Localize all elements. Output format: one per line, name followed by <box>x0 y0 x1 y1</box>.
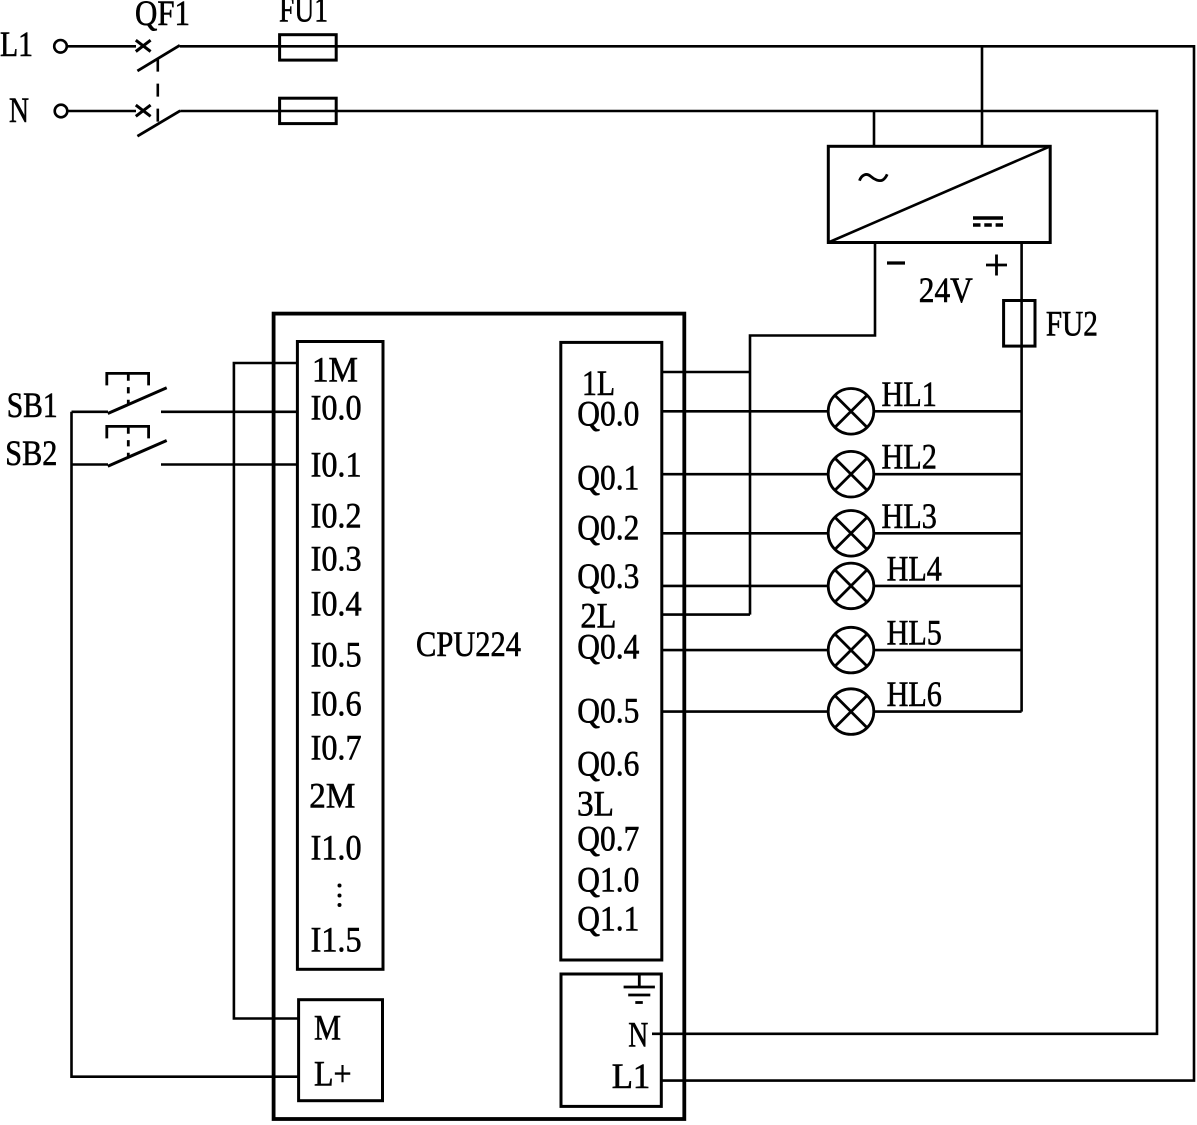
lamp HL3 <box>828 511 874 557</box>
breaker QF1 pole 2 blade <box>137 111 180 137</box>
wire Q0.3 to HL4 <box>662 585 828 588</box>
wire SB2 to I0.1 <box>161 463 297 466</box>
PLC CPU224 box <box>274 314 685 1119</box>
wire L1 drop to power supply input <box>981 46 984 146</box>
svg-text:SB1: SB1 <box>7 385 58 425</box>
pushbutton SB2 actuator stem (dashed) <box>127 427 130 456</box>
svg-text:Q0.3: Q0.3 <box>577 556 639 596</box>
wire SB1 to I0.0 <box>161 410 297 413</box>
svg-text:I1.0: I1.0 <box>311 828 362 868</box>
svg-text:2M: 2M <box>309 776 355 816</box>
wire N drop to power supply input <box>873 111 876 146</box>
svg-text:Q0.2: Q0.2 <box>577 508 639 548</box>
pushbutton SB1 actuator cap <box>107 373 149 385</box>
svg-text:HL6: HL6 <box>887 674 942 714</box>
svg-text:I0.5: I0.5 <box>311 635 362 675</box>
svg-text:I0.0: I0.0 <box>311 388 362 428</box>
svg-text:M: M <box>314 1008 341 1048</box>
svg-text:N: N <box>9 90 29 130</box>
wire HL4 to bus <box>874 585 1022 588</box>
svg-text:3L: 3L <box>577 784 614 824</box>
wire Q0.4 to HL5 <box>662 649 828 652</box>
svg-text:Q0.1: Q0.1 <box>577 457 639 497</box>
fuse FU2 <box>1004 301 1035 347</box>
svg-text:I0.2: I0.2 <box>311 496 362 536</box>
svg-text:I0.6: I0.6 <box>311 684 362 724</box>
wire Q0.0 to HL1 <box>662 410 828 413</box>
wire 24V plus output to FU2 <box>1020 243 1023 301</box>
svg-text:I0.4: I0.4 <box>311 584 362 624</box>
plus sign <box>986 255 1007 276</box>
power supply U1 diagonal <box>828 146 1050 242</box>
svg-text:24V: 24V <box>919 270 973 310</box>
ellipsis dots <box>338 884 342 908</box>
wire Q0.1 to HL2 <box>662 473 828 476</box>
ground symbol <box>624 974 655 1003</box>
PLC output terminal block <box>561 342 662 960</box>
svg-text:HL1: HL1 <box>882 374 937 414</box>
svg-text:HL3: HL3 <box>882 496 937 536</box>
lamp HL5 <box>828 627 874 673</box>
wire HL2 to bus <box>874 473 1022 476</box>
svg-text:N: N <box>628 1015 648 1055</box>
power supply U1 box <box>828 146 1050 242</box>
svg-text:HL5: HL5 <box>887 613 942 653</box>
wire left supply vertical to L+ <box>72 412 299 1077</box>
wire HL1 to bus <box>874 410 1022 413</box>
svg-text:Q0.7: Q0.7 <box>577 819 639 859</box>
svg-text:HL4: HL4 <box>887 548 942 588</box>
svg-text:FU1: FU1 <box>279 0 328 30</box>
wire HL6 to bus <box>874 710 1022 713</box>
svg-text:Q0.0: Q0.0 <box>577 394 639 434</box>
svg-text:Q1.1: Q1.1 <box>577 899 639 939</box>
wire N to QF1 <box>68 110 137 113</box>
lamp HL2 <box>828 451 874 497</box>
svg-text:L+: L+ <box>314 1054 352 1094</box>
power supply DC symbol <box>973 218 1003 225</box>
wire L1 top run to right edge, down, to L1 terminal of PLC <box>180 46 1194 1080</box>
lamp HL4 <box>828 563 874 609</box>
svg-text:Q0.4: Q0.4 <box>577 627 639 667</box>
svg-text:Q0.6: Q0.6 <box>577 744 639 784</box>
breaker QF1 pole 1 blade <box>137 45 179 71</box>
svg-text:L1: L1 <box>612 1056 651 1096</box>
wire 1L to bus <box>662 371 750 374</box>
PLC input terminal block <box>297 342 383 970</box>
fuse FU1 element 1 <box>280 35 337 60</box>
lamp HL6 <box>828 689 874 735</box>
wire Q0.2 to HL3 <box>662 532 828 535</box>
pushbutton SB2 blade <box>108 441 167 467</box>
pushbutton SB1 actuator stem (dashed) <box>127 374 130 403</box>
svg-text:Q1.0: Q1.0 <box>577 860 639 900</box>
svg-text:CPU224: CPU224 <box>416 624 521 664</box>
wire L1 to QF1 <box>67 45 136 48</box>
wire 1M to M <box>234 363 299 1019</box>
pushbutton SB1 left lead <box>72 410 109 413</box>
wire lamp supply bus from FU2 <box>1020 346 1023 711</box>
PLC M/L+ block <box>299 1000 383 1101</box>
wire N run to right, down, to N terminal of PLC <box>180 111 1157 1034</box>
svg-text:1M: 1M <box>312 350 358 390</box>
power supply AC symbol <box>860 174 888 180</box>
svg-text:Q0.5: Q0.5 <box>577 691 639 731</box>
svg-text:QF1: QF1 <box>135 0 190 33</box>
pushbutton SB2 actuator cap <box>107 426 149 438</box>
breaker QF1 pole 2 contact x <box>136 105 151 116</box>
PLC N/L1 block <box>561 974 661 1106</box>
breaker QF1 linkage (dashed) <box>157 59 160 124</box>
svg-text:I0.3: I0.3 <box>311 539 362 579</box>
svg-text:FU2: FU2 <box>1046 304 1098 344</box>
wire HL3 to bus <box>874 532 1022 535</box>
svg-text:I0.7: I0.7 <box>311 728 362 768</box>
svg-text:I1.5: I1.5 <box>311 920 362 960</box>
svg-text:SB2: SB2 <box>5 433 57 473</box>
terminal circle N <box>55 105 68 118</box>
wire HL5 to bus <box>874 649 1022 652</box>
pushbutton SB1 blade <box>108 388 167 414</box>
breaker QF1 pole 1 contact x <box>136 40 151 51</box>
terminal circle L1 <box>54 40 67 53</box>
svg-text:I0.1: I0.1 <box>311 445 362 485</box>
fuse FU1 element 2 <box>280 98 337 123</box>
wire Q0.5 to HL6 <box>662 710 828 713</box>
wire 2L to bus <box>662 613 750 616</box>
svg-text:HL2: HL2 <box>882 437 937 477</box>
minus sign <box>887 261 905 264</box>
lamp HL1 <box>828 389 874 435</box>
pushbutton SB2 left lead <box>72 463 109 466</box>
wire 24V minus output to 1L/2L bus <box>750 243 875 615</box>
svg-text:L1: L1 <box>0 24 33 64</box>
